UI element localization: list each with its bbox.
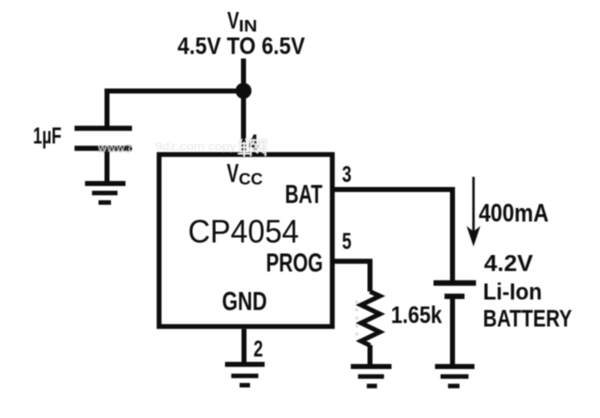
svg-text:400mA: 400mA — [479, 200, 549, 228]
wire resistor to ground — [368, 345, 373, 366]
svg-text:4.5V TO 6.5V: 4.5V TO 6.5V — [178, 33, 306, 60]
ground under capacitor — [85, 184, 126, 203]
svg-text:CC: CC — [239, 170, 263, 189]
svg-text:V: V — [227, 158, 239, 188]
svg-text:GND: GND — [222, 286, 267, 316]
capacitor C1 bottom plate — [75, 146, 133, 151]
svg-text:5: 5 — [342, 228, 352, 254]
ground under resistor — [351, 367, 392, 387]
node junction dot — [236, 83, 252, 99]
battery BT1 bottom plate — [445, 294, 465, 299]
svg-text:1µF: 1µF — [33, 123, 62, 149]
wire capacitor to ground — [105, 149, 110, 184]
svg-text:www.8: www.8 — [97, 144, 132, 156]
svg-text:V: V — [227, 8, 239, 35]
wire BAT pin 3 to battery — [334, 190, 453, 284]
svg-text:Li-Ion: Li-Ion — [483, 279, 542, 305]
resistor R1 zigzag — [361, 292, 380, 346]
svg-text:PROG: PROG — [266, 248, 323, 278]
svg-text:BATTERY: BATTERY — [483, 306, 572, 333]
svg-text:3: 3 — [342, 161, 352, 187]
svg-text:CP4054: CP4054 — [188, 214, 299, 250]
wire VIN vertical to pin 4 — [241, 59, 246, 153]
wire battery to ground — [450, 297, 455, 367]
battery BT1 top plate — [434, 280, 477, 285]
watermark CJK glyph strokes — [239, 139, 266, 156]
ground under battery — [435, 367, 475, 387]
svg-text:BAT: BAT — [285, 179, 322, 209]
wire junction to capacitor — [107, 91, 244, 128]
svg-text:9dz.com copy: 9dz.com copy — [155, 141, 237, 153]
watermark overlay — [97, 139, 359, 336]
ground under GND pin — [225, 364, 265, 385]
capacitor C1 top plate — [75, 126, 133, 131]
wire GND pin 2 to ground — [242, 329, 247, 362]
op-amp U1 CP4054 body — [159, 155, 332, 327]
pin VCC label — [227, 158, 263, 189]
svg-text:1.65k: 1.65k — [391, 302, 443, 329]
svg-text:4.2V: 4.2V — [484, 250, 534, 276]
current arrow 400mA — [467, 177, 481, 247]
svg-text:2: 2 — [254, 336, 264, 362]
wire PROG pin 5 to resistor — [334, 261, 370, 291]
node VIN label — [227, 8, 257, 36]
